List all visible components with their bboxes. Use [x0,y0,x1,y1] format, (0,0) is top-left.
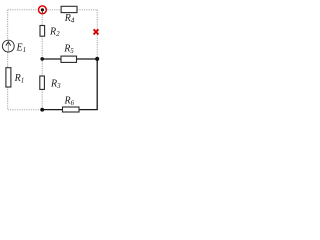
wire top R4 to top-right corner (dashed) [77,9,97,11]
terminal node (red) [39,6,47,14]
right junction dot [95,57,99,61]
source E1 [2,40,14,52]
wire R2 to node A (dashed) [41,36,43,59]
resistor R5 [61,56,77,62]
bottom junction dot [40,108,44,112]
break mark X (red) [94,29,99,34]
resistor R2 [40,26,45,37]
wire left edge E1 to R1 (dashed) [7,52,9,68]
wire right edge upper with break (dashed) [96,10,98,59]
wire node A to R5 (solid) [42,58,61,60]
wire R3 to bottom node (dashed) [41,89,43,109]
wire top-left horizontal (dashed) [8,9,38,11]
wire R5 to right node (solid) [77,58,98,60]
wire node A to R3 (dashed) [41,59,43,76]
wire left edge R1 to bottom-left corner (dashed) [7,87,9,110]
wire bottom-left horizontal (dashed) [8,109,43,111]
wire bottom right to R6 (solid) [79,109,98,111]
resistor R1 [6,68,11,87]
wire right edge lower (solid) [96,59,98,110]
node A junction dot [40,57,44,61]
wire bottom node to R6 (solid) [42,109,62,111]
wire terminal to R2 (dashed) [41,14,43,25]
wire left edge upper (dashed) [7,10,9,41]
wire top middle terminal to R4 (dashed) [47,9,61,11]
resistor R3 [40,76,45,89]
resistor R4 [61,6,77,12]
resistor R6 [63,107,80,112]
